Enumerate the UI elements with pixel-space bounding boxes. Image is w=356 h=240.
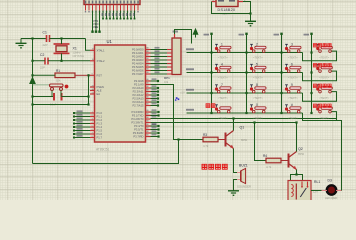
wire (281, 160, 289, 162)
wire (303, 92, 337, 102)
wire (21, 38, 46, 40)
svg-text:P0.2/AD2: P0.2/AD2 (132, 55, 144, 59)
svg-text:D3: D3 (328, 179, 332, 183)
svg-text:X1: X1 (73, 47, 77, 51)
wire Q1 collector up (233, 119, 235, 131)
junction (87, 95, 89, 97)
wire P3.7 stub (151, 136, 159, 138)
svg-text:8050: 8050 (241, 138, 248, 142)
wire P2.3 stub (151, 91, 159, 93)
wire P3.0 stub (151, 111, 159, 113)
U1 right pin stubs (146, 50, 151, 137)
svg-text:<TEXT>: <TEXT> (288, 116, 298, 120)
wire LCD data pin (109, 11, 111, 19)
报警模块 red label (alarm module) (202, 164, 227, 169)
wire (187, 72, 303, 74)
wire LCD pin1 (92, 11, 94, 32)
relay RL1 (288, 181, 311, 202)
svg-text:P1.4: P1.4 (97, 125, 103, 129)
svg-text:P0.4/AD4: P0.4/AD4 (132, 62, 144, 66)
wire P2.7 stub (151, 105, 159, 107)
wire P2.2 stub (151, 87, 159, 89)
svg-text:<TEXT>: <TEXT> (218, 116, 228, 120)
wire (281, 34, 283, 114)
svg-text:P2.5/A13: P2.5/A13 (132, 97, 144, 101)
button r2c4 (316, 64, 332, 72)
junction (31, 103, 33, 105)
wire P0 to RP1 (151, 52, 168, 54)
LCD pins 1-16 (86, 5, 139, 11)
svg-text:5: 5 (256, 63, 258, 67)
svg-text:<TEXT>: <TEXT> (288, 96, 298, 100)
junction (31, 37, 33, 39)
svg-text:RL1: RL1 (314, 180, 320, 184)
svg-text:LED-RED: LED-RED (325, 196, 337, 200)
junction (310, 71, 312, 73)
wire (303, 113, 342, 191)
wire P3.1 stub (151, 115, 159, 117)
wire to R4 (255, 123, 267, 161)
wire P2.1 to R3 (151, 85, 204, 140)
svg-text:6: 6 (291, 63, 293, 67)
svg-text:C2: C2 (40, 53, 44, 57)
svg-text:1: 1 (221, 43, 223, 47)
wire P1.0 net (74, 112, 90, 114)
sensor DS18B20 (cut off at top) (216, 0, 238, 7)
button r3c1 (215, 85, 231, 93)
svg-text:P3.4/T0: P3.4/T0 (134, 124, 144, 128)
wire P3.6 stub (151, 132, 159, 134)
svg-text:P0.7/AD7: P0.7/AD7 (132, 72, 144, 76)
svg-text:2: 2 (256, 43, 258, 47)
wire (62, 96, 89, 98)
svg-text:R3: R3 (203, 133, 207, 137)
svg-text:P2.1/A9: P2.1/A9 (134, 83, 144, 87)
wire RST node vertical (88, 75, 90, 104)
wire P2.0 stub (151, 80, 159, 82)
wire (187, 92, 303, 94)
junction (295, 121, 297, 123)
svg-text:P3.2/INT0: P3.2/INT0 (131, 117, 144, 121)
junction (280, 51, 282, 53)
svg-text:P3.3/INT1: P3.3/INT1 (131, 121, 144, 125)
svg-text:P2.3/A11: P2.3/A11 (133, 90, 144, 94)
svg-text:P2.7/A15: P2.7/A15 (132, 104, 144, 108)
button r2c1 (215, 64, 231, 72)
wire buzzer gnd (234, 180, 238, 191)
svg-text:<TEXT>: <TEXT> (218, 56, 228, 60)
svg-text:P0.1/AD1: P0.1/AD1 (132, 51, 144, 55)
wire P3.4 stub (151, 125, 159, 127)
wire Q1 emitter (234, 149, 238, 173)
LED pin stubs (pink) (322, 190, 342, 192)
svg-text:<TEXT>: <TEXT> (319, 116, 329, 120)
wire LCD data pin (116, 11, 118, 19)
svg-text:XTAL2: XTAL2 (97, 59, 106, 63)
power terminal +5V (193, 29, 198, 38)
junction (245, 51, 247, 53)
capacitor C1 (47, 35, 50, 42)
wire to XTAL2 (48, 60, 90, 62)
svg-text:VEE: VEE (93, 25, 98, 29)
svg-text:u1.8: u1.8 (180, 92, 185, 95)
svg-text:R4: R4 (263, 154, 267, 158)
junction (210, 71, 212, 73)
wire P0 to RP1 (151, 59, 168, 61)
junction (210, 51, 212, 53)
svg-text:<TEXT>: <TEXT> (253, 56, 263, 60)
button r3c2 (250, 85, 266, 93)
junction (31, 74, 33, 76)
svg-text:P1.2: P1.2 (97, 118, 103, 122)
svg-text:<TEXT>: <TEXT> (319, 96, 329, 100)
wire (218, 139, 225, 141)
blue marker (175, 97, 179, 101)
wire P1.4 net (74, 126, 90, 128)
resistor R1 body (55, 73, 75, 78)
svg-text:22P: 22P (43, 43, 48, 47)
svg-text:RST: RST (97, 73, 103, 77)
wire P0 to RP1 (151, 73, 168, 75)
wire (303, 51, 337, 61)
svg-text:P0.5/AD5: P0.5/AD5 (132, 65, 144, 69)
junction (280, 112, 282, 114)
svg-text:P1.1: P1.1 (97, 115, 103, 119)
junction (87, 103, 89, 105)
wire to XTAL1 (86, 39, 91, 51)
svg-text:4.7k: 4.7k (266, 165, 272, 169)
svg-text:<TEXT>: <TEXT> (288, 56, 298, 60)
junction (253, 121, 255, 123)
wire R1 to RST (pin colored) (75, 74, 90, 76)
wire (243, 2, 251, 22)
RP1 top pin (174, 34, 176, 38)
junction (31, 95, 33, 97)
resistor R4 body (266, 158, 281, 163)
wire H2 (151, 122, 297, 124)
svg-text:P3.7/RD: P3.7/RD (133, 135, 143, 139)
button r1c2 (250, 44, 266, 52)
junction (310, 92, 312, 94)
button r4c1 (215, 105, 231, 113)
ground (228, 186, 239, 196)
button r1c4 (316, 44, 332, 52)
wire C2 left to rail (33, 39, 46, 61)
wire (187, 52, 303, 54)
button r1c1 (215, 44, 231, 52)
U1 left pin stubs (90, 50, 95, 137)
svg-text:RP1: RP1 (164, 76, 170, 80)
button r3c4 (316, 85, 332, 93)
button r2c3 (285, 64, 301, 72)
wire P0 to RP1 (151, 66, 168, 68)
svg-text:P0.6/AD6: P0.6/AD6 (132, 69, 144, 73)
button r4c3 (285, 105, 301, 113)
svg-text:P3.5/T1: P3.5/T1 (134, 128, 144, 132)
svg-text:XTAL1: XTAL1 (97, 48, 106, 52)
microcontroller U1 AT89C51 (95, 45, 146, 142)
svg-text:P1.0: P1.0 (97, 111, 103, 115)
wire (211, 34, 213, 114)
wire col4 row4 right leg (331, 112, 336, 121)
svg-text:#: # (291, 103, 293, 107)
wire P2.6 stub (151, 101, 159, 103)
junction (87, 74, 89, 76)
crystal X1 (54, 39, 70, 61)
DS18B20 pins (212, 1, 244, 3)
svg-text:P2.2/A10: P2.2/A10 (132, 86, 144, 90)
button r1c3 (285, 44, 301, 52)
svg-text:<TEXT>: <TEXT> (253, 96, 263, 100)
wire (33, 74, 56, 76)
wire H1 (151, 119, 337, 121)
svg-text:CRYSTAL: CRYSTAL (73, 54, 85, 58)
svg-text:4: 4 (221, 63, 223, 67)
svg-text:<TEXT>: <TEXT> (319, 56, 329, 60)
wire LCD pin3 (99, 11, 101, 32)
wire RP1 common to power drop (175, 30, 192, 44)
svg-text:PSEN: PSEN (97, 85, 104, 89)
wire Q2 emitter (291, 170, 297, 181)
junction (245, 112, 247, 114)
wire (33, 104, 89, 106)
svg-text:P1.7: P1.7 (97, 136, 103, 140)
svg-text:P2.0/A8: P2.0/A8 (134, 79, 144, 83)
button r4c2 (250, 105, 266, 113)
resistor R3 body (203, 137, 218, 142)
wire rail to button (pale) (33, 84, 50, 86)
svg-text:R1: R1 (56, 69, 60, 73)
wire P1.5 net (74, 130, 90, 132)
wire P1.7 net (74, 137, 90, 139)
junction (60, 60, 62, 62)
svg-text:8: 8 (256, 83, 258, 87)
wire P1.1 net (74, 116, 90, 118)
junction (31, 60, 33, 62)
reset button (50, 84, 69, 91)
wire P1.3 net (74, 123, 90, 125)
junction (210, 92, 212, 94)
svg-text:7: 7 (221, 83, 223, 87)
svg-text:10k: 10k (164, 80, 169, 84)
button r3c3 (285, 85, 301, 93)
svg-text:Q1: Q1 (240, 126, 245, 130)
svg-text:<TEXT>: <TEXT> (218, 96, 228, 100)
wire P2.4 stub (151, 94, 159, 96)
wire P3.5 stub (151, 129, 159, 131)
junction (177, 138, 179, 140)
svg-text:Q2: Q2 (298, 147, 303, 151)
junction (232, 117, 234, 119)
wire LCD data pin (102, 11, 104, 19)
svg-text:0: 0 (256, 103, 258, 107)
wire P2.5 stub (151, 98, 159, 100)
svg-text:22P: 22P (40, 66, 45, 70)
wire LCD data pin (120, 11, 122, 19)
svg-text:<TEXT>: <TEXT> (288, 76, 298, 80)
svg-text:P1.6: P1.6 (97, 132, 103, 136)
wire (187, 112, 303, 114)
button r2c2 (250, 64, 266, 72)
wire (212, 2, 251, 14)
wire P0 to RP1 (151, 70, 168, 72)
wire P0 to RP1 (151, 56, 168, 58)
junction (310, 51, 312, 53)
svg-text:P1.3: P1.3 (97, 122, 103, 126)
wire bottom loop (33, 140, 179, 164)
svg-text:P3.1/TXD: P3.1/TXD (132, 114, 144, 118)
capacitor C3 (electrolytic) (54, 93, 62, 101)
svg-text:P1.5: P1.5 (97, 129, 103, 133)
svg-text:9: 9 (291, 83, 293, 87)
junction (310, 112, 312, 114)
svg-text:8550: 8550 (298, 152, 305, 156)
svg-text:<TEXT>: <TEXT> (319, 76, 329, 80)
wire (311, 34, 313, 114)
junction (245, 92, 247, 94)
svg-text:P3.6/WR: P3.6/WR (133, 131, 144, 135)
junction (249, 12, 251, 14)
wire relay-LED (311, 190, 322, 192)
LCD display LCD1 (cut off at top) (84, 0, 140, 5)
wire Q2 collector up (296, 123, 298, 152)
wire LCD data pin (123, 11, 125, 19)
wire P1.2 net (74, 119, 90, 121)
wire (246, 34, 248, 114)
svg-text:C1: C1 (43, 31, 47, 35)
svg-text:P2.4/A12: P2.4/A12 (132, 93, 144, 97)
svg-text:P3.0/RXD: P3.0/RXD (132, 110, 144, 114)
junction (60, 37, 62, 39)
wire LCD data pin (106, 11, 108, 19)
wire LCD data pin (134, 11, 136, 19)
wire LCD pin2 (95, 11, 97, 32)
wire (303, 71, 337, 81)
transistor Q2 (289, 152, 297, 170)
wire LCD data pin (130, 11, 132, 19)
ground (16, 39, 27, 49)
svg-text:<TEXT>: <TEXT> (218, 76, 228, 80)
svg-text:<TEXT>: <TEXT> (253, 116, 263, 120)
junction (245, 71, 247, 73)
svg-text:4.7k: 4.7k (203, 144, 209, 148)
wire LCD data pin (127, 11, 129, 19)
junction (295, 173, 297, 175)
junction (280, 71, 282, 73)
ground (245, 17, 256, 27)
svg-text:BUZ1: BUZ1 (239, 164, 248, 168)
svg-text:EA: EA (97, 92, 101, 96)
svg-text:10k: 10k (56, 79, 61, 83)
transistor Q1 (226, 131, 234, 149)
wire left rail (32, 61, 34, 164)
svg-text:AT89C51: AT89C51 (96, 148, 109, 152)
wire P0 to RP1 (151, 63, 168, 65)
button r4c4 (316, 105, 332, 113)
wire (50, 38, 86, 40)
wire rail to C3 (33, 96, 54, 98)
svg-text:P0.3/AD3: P0.3/AD3 (132, 58, 144, 62)
wire to relay contact (297, 175, 303, 181)
svg-text:ALE: ALE (97, 89, 102, 93)
junction (210, 112, 212, 114)
svg-text:<TEXT>: <TEXT> (253, 76, 263, 80)
power terminal (up arrow) (30, 78, 35, 88)
junction (280, 92, 282, 94)
resistor pack RP1 (172, 38, 181, 75)
wire P0 to RP1 (151, 49, 168, 51)
svg-text:SOUNDER: SOUNDER (237, 185, 251, 189)
wire P1.6 net (74, 133, 90, 135)
svg-text:U1: U1 (107, 39, 113, 44)
capacitor C2 (45, 58, 48, 65)
wire LCD data pin (113, 11, 115, 19)
svg-text:P0.0/AD0: P0.0/AD0 (132, 48, 144, 52)
RP1 left pins (167, 50, 172, 75)
svg-text:P2.6/A14: P2.6/A14 (132, 100, 144, 104)
svg-text:3: 3 (291, 43, 293, 47)
